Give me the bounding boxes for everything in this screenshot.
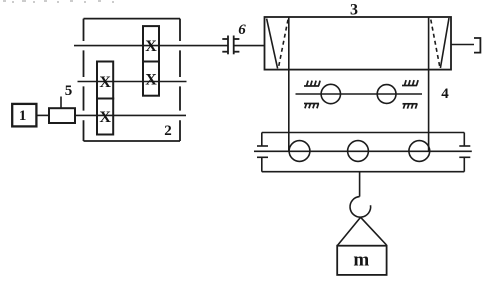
gear pair left (shafts I-II) — [97, 62, 113, 135]
sheave middle — [348, 141, 369, 162]
block top rail — [262, 132, 465, 134]
rope right fall — [428, 17, 430, 151]
winch drum 3 — [265, 17, 452, 70]
equalizer axle 4 — [296, 93, 423, 95]
drum right flange — [431, 18, 449, 68]
load m — [337, 246, 386, 275]
block left bearing — [257, 133, 268, 172]
svg-text:6: 6 — [238, 22, 246, 38]
intermediate shaft II (middle) — [78, 81, 187, 83]
svg-text:3: 3 — [350, 2, 358, 19]
shaft coupling 6 to drum — [234, 45, 265, 47]
gearbox 2 housing — [84, 19, 181, 141]
block bottom rail — [262, 171, 465, 173]
block axle — [254, 150, 472, 152]
hanger link — [359, 172, 361, 197]
support hatch upper-right — [402, 80, 418, 85]
motor 1 — [12, 104, 36, 127]
svg-text:1: 1 — [19, 108, 27, 124]
coupling 6 — [222, 36, 239, 55]
drum left flange — [267, 19, 288, 69]
scan noise top edge — [3, 1, 114, 2]
svg-text:2: 2 — [164, 123, 172, 139]
support hatch lower-left — [304, 104, 319, 109]
wire motor to coupling 5 — [36, 114, 49, 116]
svg-text:m: m — [353, 250, 369, 271]
sheave right — [409, 141, 430, 162]
drum right bearing bracket — [451, 38, 480, 53]
svg-text:X: X — [99, 109, 111, 126]
svg-text:X: X — [145, 38, 157, 55]
guide pulley right — [377, 85, 396, 104]
svg-text:X: X — [99, 74, 111, 91]
rope left fall — [288, 17, 290, 151]
svg-text:X: X — [145, 72, 157, 89]
coupling 5 — [49, 97, 75, 124]
hook — [350, 197, 371, 218]
output shaft III (top) — [74, 45, 228, 47]
sheave left — [289, 141, 310, 162]
input shaft I (bottom) — [75, 114, 186, 116]
support hatch upper-left — [304, 81, 320, 86]
sling — [337, 217, 386, 245]
svg-text:4: 4 — [441, 86, 449, 102]
block right bearing — [459, 133, 470, 172]
gear pair right (shafts II-III) — [143, 26, 159, 96]
support hatch lower-right — [403, 104, 418, 109]
guide pulley left — [321, 84, 340, 103]
svg-text:5: 5 — [65, 83, 73, 99]
